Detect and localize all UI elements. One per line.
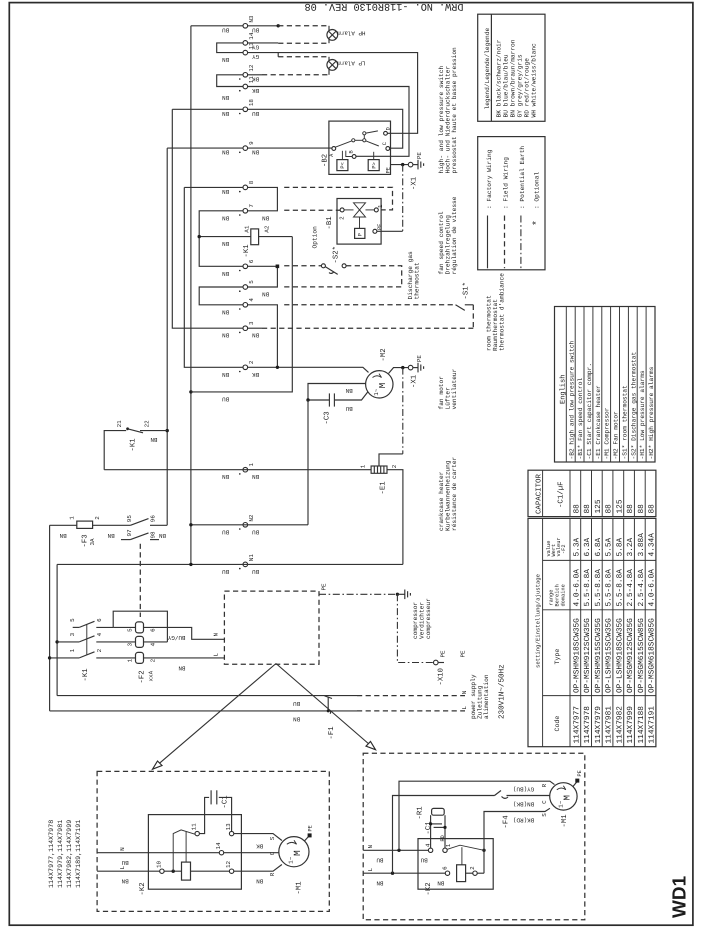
B1 triac symbol	[344, 203, 374, 229]
K2 contact arm (detail 1)	[173, 830, 195, 871]
svg-text:BN: BN	[222, 371, 230, 378]
terminal N2	[243, 523, 248, 528]
wire: fan BU tap to K1 A2 riser	[191, 237, 292, 392]
wire: N3 left to N bus	[191, 25, 243, 27]
svg-text:4.0-6.0A: 4.0-6.0A	[648, 569, 657, 607]
wire: 7 left down to K1 coil A1	[199, 211, 243, 266]
wire: 13 to motor S	[234, 834, 282, 841]
svg-text:1: 1	[248, 463, 255, 467]
svg-text:6: 6	[248, 259, 255, 263]
terminal 13	[243, 50, 248, 55]
svg-text:-S1*: -S1*	[461, 282, 470, 300]
table data row 4	[605, 504, 614, 744]
compressor motor M1 (detail 2)	[550, 783, 577, 810]
wire: 2 left up to 8 bus	[184, 187, 243, 367]
wire: 14 jumper to 13 (left)	[217, 43, 243, 53]
K1 pole 1/2	[50, 657, 80, 659]
wire: 13 right long run to B2 contact D	[248, 53, 418, 134]
svg-text:125: 125	[594, 499, 603, 513]
wire: L tap up to overload F4	[393, 796, 495, 874]
wire: N supply line	[57, 695, 357, 697]
english table row lines	[575, 307, 646, 463]
svg-text:: Optional: : Optional	[534, 172, 541, 209]
svg-text:GY: GY	[252, 53, 260, 60]
svg-text:LP Alarm: LP Alarm	[337, 60, 366, 67]
svg-text:114X7981: 114X7981	[605, 706, 614, 744]
terminal marker dots	[239, 78, 241, 569]
svg-text:RD red/rot/rouge: RD red/rot/rouge	[524, 58, 531, 118]
B2 contact D	[384, 131, 388, 135]
svg-text:résistance de carter: résistance de carter	[451, 456, 458, 531]
svg-text:BN: BN	[437, 879, 445, 886]
B1 terminal 2	[340, 208, 344, 212]
terminal 8	[243, 185, 248, 190]
svg-text:1~: 1~	[557, 800, 564, 808]
wire: B1 PE to dash-dot riser	[377, 230, 403, 232]
fan motor M2	[366, 371, 393, 398]
wire: 9 left to bus	[167, 147, 243, 149]
K1 mechanical link	[86, 625, 88, 656]
wire: N2 riser to C3 node	[307, 400, 309, 525]
svg-text:11: 11	[248, 76, 255, 84]
wire: jumper F2-4 up over to pole 5 input	[113, 611, 167, 642]
K2 terminal 4	[428, 848, 432, 852]
svg-text:PE: PE	[320, 583, 327, 591]
svg-text:88: 88	[637, 504, 646, 514]
svg-text:96: 96	[150, 515, 157, 523]
F2 heater pole 3/4	[136, 636, 144, 647]
fuse F3	[77, 521, 93, 528]
legend header separator	[490, 14, 492, 121]
svg-text:-F2: -F2	[561, 544, 567, 554]
S2 contact	[321, 264, 325, 268]
svg-text:7: 7	[248, 204, 255, 208]
F2 heater pole 5/6	[136, 622, 144, 633]
wire: M2 PE to X1	[389, 368, 409, 374]
contact K1 21/22	[126, 427, 129, 430]
wire: N through to motor C	[224, 852, 279, 854]
K1 pole 5/6	[73, 626, 80, 628]
svg-text:114X7982: 114X7982	[615, 706, 624, 744]
svg-text:Code: Code	[554, 716, 561, 732]
svg-text:BK: BK	[252, 371, 260, 378]
wire: 2 right to fan motor	[248, 367, 369, 372]
setting colheader line	[569, 518, 571, 746]
svg-text:S: S	[269, 836, 276, 840]
terminal X1 PE (B2)	[408, 162, 413, 167]
table data row 7	[637, 504, 646, 744]
svg-text:5: 5	[127, 628, 134, 632]
svg-text:N1: N1	[248, 554, 255, 562]
svg-text:pressostat haute et basse pres: pressostat haute et basse pression	[451, 47, 458, 174]
svg-text:English: English	[558, 375, 567, 404]
terminal N1	[243, 562, 248, 567]
heater E1	[371, 466, 387, 473]
svg-text:C: C	[269, 851, 276, 855]
B2 bellows P-high	[368, 160, 379, 171]
terminal 14	[243, 41, 248, 46]
svg-text:L: L	[119, 865, 126, 869]
svg-text:-K1: -K1	[82, 668, 90, 682]
wire: N tap up to motor R	[399, 781, 555, 850]
svg-text:R: R	[541, 783, 548, 787]
node: N riser / K1 pole 3	[55, 640, 58, 643]
K2 terminal 12	[229, 869, 233, 873]
svg-text:BN(BK): BN(BK)	[513, 800, 534, 807]
svg-text:*: *	[532, 220, 544, 226]
svg-text:1~: 1~	[288, 856, 295, 864]
svg-text:1: 1	[377, 204, 384, 208]
svg-text:BN: BN	[222, 188, 230, 195]
svg-text:PE: PE	[459, 650, 466, 658]
svg-text:WD1: WD1	[670, 875, 691, 918]
svg-text:2: 2	[469, 866, 476, 870]
svg-text:D: D	[386, 127, 392, 130]
svg-text:8: 8	[248, 180, 255, 184]
svg-text:4.0-6.0A: 4.0-6.0A	[572, 569, 581, 607]
node: fan PE	[401, 366, 404, 369]
svg-text:OP-MSHM912SCW35G: OP-MSHM912SCW35G	[583, 618, 592, 693]
svg-text:21: 21	[116, 420, 123, 428]
wire: 3 left up to 18 bus	[172, 109, 243, 328]
svg-text:BU: BU	[252, 568, 260, 575]
svg-text:114X7188: 114X7188	[637, 706, 646, 744]
terminal 3	[243, 326, 248, 331]
setting column line range-type	[543, 609, 656, 611]
node: 7 bus / A1	[198, 235, 201, 238]
svg-text:C: C	[382, 142, 388, 145]
K2 contact (detail 2)	[447, 845, 484, 850]
svg-text:BN: BN	[107, 532, 115, 539]
svg-text:10: 10	[155, 860, 162, 868]
svg-text:-K2: -K2	[139, 882, 147, 895]
field wiring sample line	[504, 216, 506, 269]
svg-text:GY(BU): GY(BU)	[513, 786, 534, 793]
svg-text:-C1: -C1	[222, 795, 230, 809]
svg-text:DRW. NO. -118R0130 REV. 08: DRW. NO. -118R0130 REV. 08	[305, 0, 464, 11]
svg-text:98: 98	[150, 531, 157, 539]
terminal 12	[243, 73, 248, 78]
terminal 1	[243, 467, 248, 472]
wire: L into detail 2	[363, 872, 445, 874]
detail box 1 dashed frame	[97, 771, 329, 911]
svg-text:2: 2	[94, 516, 101, 520]
wire: 2 to S riser	[477, 872, 484, 874]
svg-text:6.3A: 6.3A	[583, 537, 592, 556]
K2 terminal 2	[473, 871, 477, 875]
M1 PE stub (detail 1)	[305, 836, 310, 841]
svg-text:2: 2	[391, 464, 398, 468]
svg-text:BU/GY: BU/GY	[167, 634, 185, 641]
svg-text:-M2: -M2	[380, 348, 388, 361]
svg-text:3: 3	[69, 632, 76, 636]
svg-text:-E1 Crankcase heater: -E1 Crankcase heater	[595, 385, 602, 460]
svg-text:9: 9	[248, 141, 255, 145]
svg-text:BN: BN	[262, 214, 270, 221]
contactor coil K1	[251, 229, 259, 245]
svg-text:3A: 3A	[89, 538, 96, 546]
node: N tap detail 2	[397, 849, 400, 852]
ground symbol at fan X1	[413, 363, 424, 373]
svg-text:xxA: xxA	[148, 670, 155, 681]
svg-text:BN: BN	[222, 473, 230, 480]
svg-text:12: 12	[248, 64, 255, 72]
wire: 4 up to C1/R1	[430, 815, 432, 848]
svg-text:OP-LSHM918SCW35G: OP-LSHM918SCW35G	[615, 618, 624, 693]
svg-text:114X7982,114X7999: 114X7982,114X7999	[66, 820, 74, 888]
node: N bus / N1	[189, 563, 192, 566]
svg-text:BN: BN	[252, 149, 260, 156]
terminal 7	[243, 209, 248, 214]
fuse F1 on supply	[325, 696, 333, 714]
svg-text:OP-MSHM915SCW35G: OP-MSHM915SCW35G	[594, 618, 603, 693]
table data row 6	[626, 504, 635, 744]
wire: 9 right to B2 contact A	[248, 147, 332, 149]
svg-text:PE: PE	[577, 770, 583, 776]
wire: 6 right jumper down to 5	[248, 266, 278, 287]
terminal N3	[243, 24, 248, 29]
svg-text:5.5-8.8A: 5.5-8.8A	[594, 569, 603, 607]
svg-text:BN: BN	[252, 332, 260, 339]
svg-text:thermostat d'ambiance: thermostat d'ambiance	[499, 273, 506, 351]
svg-text:114X7977: 114X7977	[572, 706, 581, 744]
svg-text:3: 3	[127, 642, 134, 646]
svg-text:97: 97	[126, 529, 133, 537]
terminal 9	[243, 146, 248, 151]
svg-text:-K1: -K1	[243, 244, 251, 258]
svg-text:114X7191: 114X7191	[648, 706, 657, 744]
svg-text:BU blue/blau/bleu: BU blue/blau/bleu	[502, 54, 509, 117]
svg-text:BN: BN	[222, 270, 230, 277]
wire: 11 up to C1	[199, 797, 209, 833]
wire: M2 BN lead to C3	[308, 384, 366, 401]
svg-text:5.5A: 5.5A	[605, 537, 614, 556]
capacitor table frame	[528, 470, 656, 516]
svg-text:4: 4	[248, 298, 255, 302]
capacitor data line	[569, 470, 571, 516]
svg-text:2.5-4.8A: 2.5-4.8A	[626, 569, 635, 607]
svg-text:114X7979: 114X7979	[594, 706, 603, 744]
svg-text:14: 14	[248, 32, 255, 40]
svg-text:M: M	[378, 383, 388, 388]
relay K2 box (detail 1)	[148, 815, 241, 890]
svg-text:-X1: -X1	[410, 374, 418, 388]
wire: F3 to overload contact 95	[93, 524, 131, 526]
svg-text:BN: BN	[222, 110, 230, 117]
svg-text:4: 4	[150, 642, 157, 646]
svg-text:legend/Legende/legende: legend/Legende/legende	[484, 28, 491, 110]
terminal 5	[243, 285, 248, 290]
svg-text:ventilateur: ventilateur	[451, 368, 458, 409]
svg-text:BN: BN	[252, 473, 260, 480]
svg-text:N: N	[461, 690, 468, 694]
svg-text:-X1: -X1	[410, 176, 418, 190]
wire: 3 right stub and dashed S1 return	[248, 327, 262, 329]
svg-text:230V1N~/50Hz: 230V1N~/50Hz	[498, 664, 507, 719]
svg-text:-M1: -M1	[561, 814, 569, 828]
wire: 18 right to B2 contact C	[248, 109, 403, 148]
svg-text:-E1: -E1	[379, 481, 387, 495]
wire: F2-2 BN to compressor L	[144, 657, 225, 659]
wire: 8 right, jumper down to 7	[248, 187, 278, 210]
ground symbol at B2 X1	[413, 160, 424, 170]
svg-text:2: 2	[150, 658, 157, 662]
wire: L into detail 1	[97, 870, 160, 872]
svg-text:PE: PE	[308, 825, 314, 831]
S1 contact	[456, 305, 465, 311]
relay K2 box (detail 2)	[418, 839, 493, 890]
svg-text:114X7979,114X7981: 114X7979,114X7981	[57, 820, 65, 888]
svg-text:-C3: -C3	[323, 411, 331, 424]
svg-text:-K1: -K1	[130, 438, 138, 452]
wire: N into detail 2	[363, 849, 428, 851]
svg-text:: Factory Wiring: : Factory Wiring	[486, 149, 493, 209]
factory wiring sample line	[487, 216, 489, 269]
svg-text:1: 1	[360, 464, 367, 468]
svg-text:P<: P<	[340, 162, 346, 168]
svg-text:BU: BU	[252, 528, 260, 535]
B2 switch linkage	[335, 131, 379, 160]
wire: N3 right to lamp node	[248, 25, 279, 27]
svg-text:compresseur: compresseur	[425, 598, 432, 639]
svg-text:: Potential Earth: : Potential Earth	[519, 146, 526, 209]
svg-text:-C1 Start capacitor compr.: -C1 Start capacitor compr.	[586, 363, 593, 460]
svg-text:88: 88	[626, 504, 635, 514]
K2 terminal 6	[445, 871, 449, 875]
svg-text:: Field Wiring: : Field Wiring	[503, 157, 510, 209]
svg-text:-B2 high and low pressure swi: -B2 high and low pressure switch	[568, 340, 575, 459]
svg-text:BN brown/braun/marron: BN brown/braun/marron	[509, 39, 516, 117]
wire: 5/6 row through F2	[113, 626, 135, 628]
svg-text:L: L	[213, 653, 220, 657]
svg-text:BU: BU	[121, 859, 129, 866]
svg-text:-H1* Low pressure alarms: -H1* Low pressure alarms	[639, 370, 646, 459]
svg-text:6: 6	[441, 866, 448, 870]
svg-text:4.34A: 4.34A	[648, 533, 657, 557]
node: 4-2 junction	[276, 366, 279, 369]
svg-text:BU: BU	[420, 856, 428, 863]
wire: 5 left jumper down to 4	[199, 287, 243, 305]
svg-text:alimentation: alimentation	[483, 674, 490, 719]
svg-text:BN: BN	[345, 387, 353, 394]
svg-text:-C1: -C1	[425, 821, 433, 835]
svg-text:BN: BN	[376, 880, 384, 887]
wire: dashed 5 to S2 return	[284, 286, 402, 288]
F2 heater pole 1/2	[136, 652, 144, 663]
svg-text:domaine: domaine	[560, 584, 566, 606]
wire: N riser	[56, 564, 58, 695]
svg-text:14: 14	[215, 842, 222, 850]
svg-text:1: 1	[69, 516, 76, 520]
setting column line value-range	[543, 559, 656, 561]
overload NO contact 97/98	[121, 539, 130, 541]
svg-text:BN: BN	[150, 436, 158, 443]
svg-text:88: 88	[572, 504, 581, 514]
svg-text:régulation de vitesse: régulation de vitesse	[451, 196, 458, 274]
wire: F2-6 BU/GY to compressor N	[144, 627, 225, 639]
K2 terminal 10	[160, 869, 164, 873]
svg-text:PE: PE	[377, 224, 383, 230]
wire: L supply line	[50, 710, 357, 712]
wire: 1 up to C1/R1	[444, 815, 446, 848]
svg-text:114X7999: 114X7999	[626, 706, 635, 744]
svg-text:5.8A: 5.8A	[615, 537, 624, 556]
svg-text:-K2: -K2	[425, 882, 433, 895]
table data row 5	[615, 499, 624, 743]
wire: PE dash-dot fan X1 down to E1	[402, 368, 404, 454]
svg-text:C: C	[541, 800, 548, 804]
svg-text:BN: BN	[222, 308, 230, 315]
svg-text:PE: PE	[416, 152, 423, 160]
svg-text:OP-MSGM912SCW35G: OP-MSGM912SCW35G	[626, 618, 635, 693]
svg-text:BN: BN	[178, 664, 186, 671]
wire: PE dash-dot compressor to earth node	[319, 593, 397, 595]
svg-text:BN: BN	[222, 56, 230, 63]
svg-text:BU: BU	[376, 857, 384, 864]
svg-text:114X7978: 114X7978	[583, 706, 592, 744]
arrow to detail box 2	[276, 664, 376, 750]
node: B2 PE	[401, 163, 404, 166]
svg-text:BU: BU	[222, 568, 230, 575]
svg-text:BU: BU	[222, 528, 230, 535]
svg-text:-S2*: -S2*	[332, 246, 341, 264]
svg-text:BN: BN	[121, 878, 129, 885]
node: bus / K1 aux 22	[166, 429, 169, 432]
svg-text:BN: BN	[222, 149, 230, 156]
svg-text:N: N	[367, 845, 374, 849]
svg-text:BN: BN	[59, 532, 67, 539]
svg-text:-F1: -F1	[328, 726, 336, 740]
table data row 2	[583, 504, 592, 744]
B1 box	[337, 199, 381, 245]
B2 contact C	[386, 147, 390, 151]
svg-text:-F2: -F2	[139, 670, 147, 683]
svg-text:BN: BN	[222, 214, 230, 221]
svg-text:5.3A: 5.3A	[572, 537, 581, 556]
svg-text:6.8A: 6.8A	[594, 537, 603, 556]
svg-text:-M2 Fan motor: -M2 Fan motor	[613, 411, 620, 460]
node: L tap detail 2	[391, 872, 394, 875]
svg-text:6: 6	[96, 618, 103, 622]
svg-text:6: 6	[150, 628, 157, 632]
svg-text:BU: BU	[293, 700, 301, 707]
svg-text:A2: A2	[264, 225, 271, 233]
wire: coil to 12	[191, 870, 230, 872]
wire: dashed S2 to return riser	[346, 266, 402, 287]
setting column line type-code	[543, 695, 656, 697]
wire: L riser top corner to F3	[50, 524, 77, 526]
wire: PE dash-dot down to X10	[397, 594, 433, 662]
svg-text:BN: BN	[293, 715, 301, 722]
wire: M2 BU lead to C3	[334, 392, 368, 400]
svg-text:S: S	[541, 813, 548, 817]
svg-text:-S1* room thermostat: -S1* room thermostat	[622, 385, 629, 460]
svg-text:4: 4	[96, 632, 103, 636]
K2 terminal 13	[229, 831, 233, 835]
svg-text:88: 88	[605, 504, 614, 514]
svg-text:Type: Type	[554, 649, 561, 665]
svg-text:3.88A: 3.88A	[637, 533, 646, 557]
svg-text:95: 95	[126, 515, 133, 523]
wire: N into detail 1	[97, 852, 219, 854]
svg-text:N3: N3	[248, 15, 255, 23]
svg-text:5: 5	[69, 618, 76, 622]
svg-text:11: 11	[191, 823, 198, 831]
wire: A2 to riser	[259, 236, 293, 238]
svg-text:-X10: -X10	[437, 668, 445, 686]
svg-text:BN: BN	[222, 332, 230, 339]
terminal X1 PE (fan)	[408, 365, 413, 370]
